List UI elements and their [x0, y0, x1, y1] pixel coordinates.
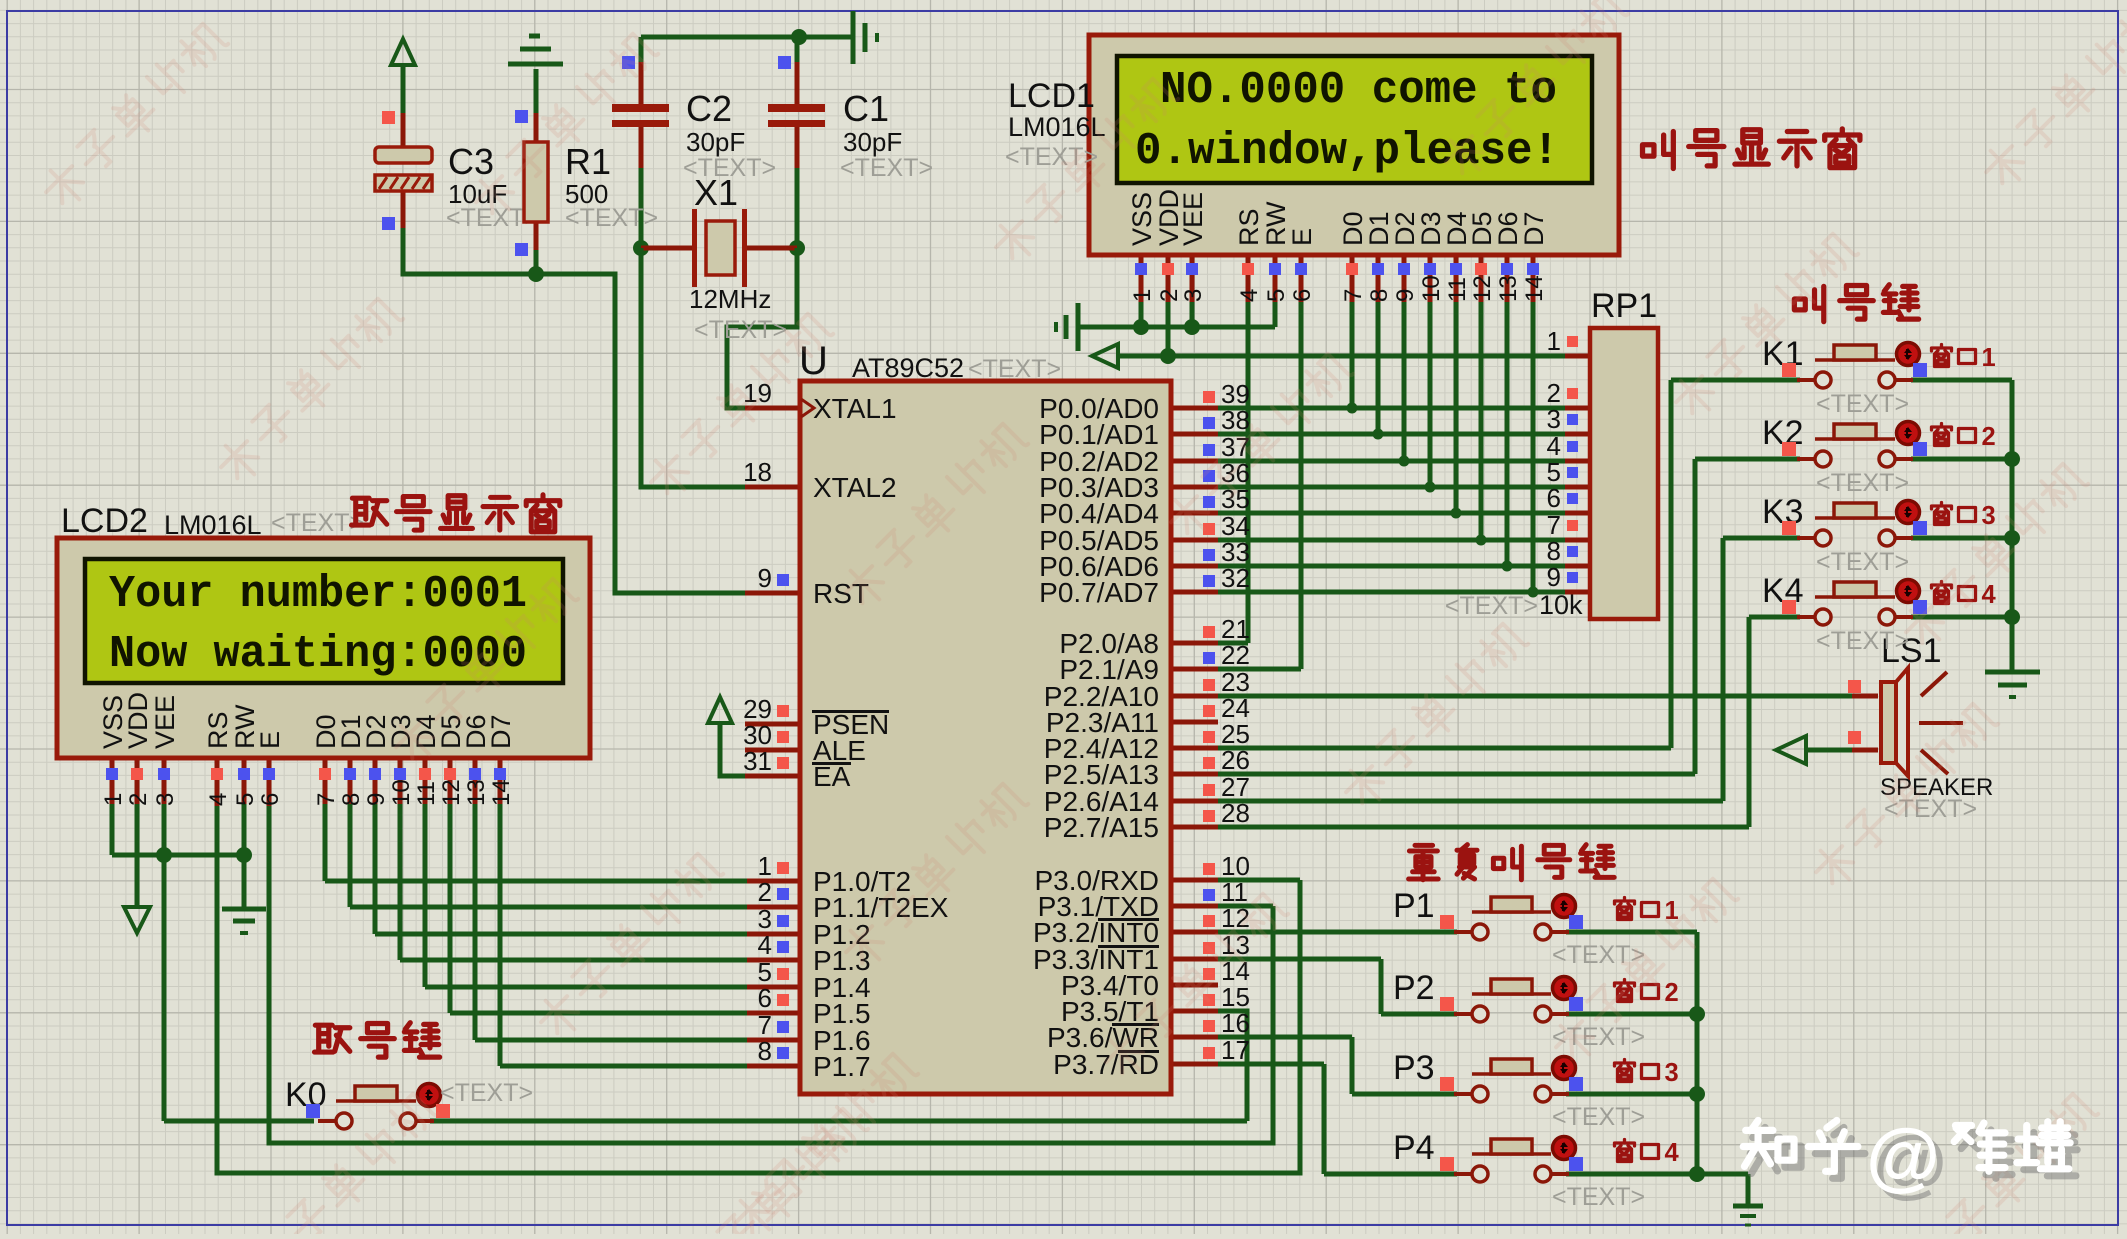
- svg-text:NO.0000 come to: NO.0000 come to: [1160, 65, 1557, 116]
- marker square C1: [778, 56, 791, 69]
- svg-text:17: 17: [1221, 1035, 1250, 1065]
- marker square K4 blue: [1913, 600, 1927, 614]
- wire K4 net P2.7: [1218, 825, 1749, 830]
- svg-text:RS: RS: [1234, 208, 1264, 246]
- wire speaker net P2.2: [1218, 694, 1854, 699]
- junction LCD1 VEE: [1184, 319, 1200, 335]
- push button P1: [1454, 895, 1576, 941]
- svg-text:14: 14: [1521, 275, 1548, 302]
- marker square P3 blue: [1569, 1077, 1583, 1091]
- marker square P3: [1440, 1077, 1454, 1091]
- svg-text:4: 4: [758, 930, 772, 960]
- junction X1 left node: [633, 240, 649, 256]
- push button P2: [1454, 977, 1576, 1023]
- wire K buttons right rail to ground: [2010, 380, 2015, 672]
- svg-text:3: 3: [1547, 404, 1561, 434]
- marker square P4 blue: [1569, 1157, 1583, 1171]
- svg-text:VSS: VSS: [1127, 192, 1157, 246]
- svg-text:7: 7: [1340, 289, 1367, 302]
- svg-text:E: E: [255, 731, 285, 749]
- LCD2 pin names: [98, 692, 516, 749]
- svg-text:X1: X1: [694, 172, 738, 213]
- push button K1: [1797, 343, 1920, 389]
- svg-text:10: 10: [388, 779, 415, 806]
- svg-text:D7: D7: [1519, 211, 1549, 246]
- marker square R1 bottom: [515, 243, 528, 256]
- watermark 知乎 @难堪: [1750, 1121, 2077, 1206]
- power +5V arrow (top left): [391, 39, 415, 65]
- junction K2 rail: [2004, 451, 2020, 467]
- svg-text:12: 12: [438, 779, 465, 806]
- junction C1 top: [791, 29, 807, 45]
- svg-text:VEE: VEE: [1178, 192, 1208, 246]
- marker square K3 blue: [1913, 521, 1927, 535]
- svg-text:8: 8: [758, 1036, 772, 1066]
- svg-text:4: 4: [205, 793, 232, 806]
- LCD2 pin numbers and markers: [100, 768, 515, 806]
- svg-text:XTAL2: XTAL2: [813, 472, 897, 503]
- pin stubs LCD2 1-14: [110, 758, 115, 806]
- svg-text:3: 3: [152, 793, 179, 806]
- pin stub PSEN: [745, 722, 800, 727]
- junction LCD2 RW: [236, 847, 252, 863]
- svg-text:<TEXT>: <TEXT>: [840, 154, 933, 182]
- wire C2 bottom to X1 left and XTAL2: [639, 126, 644, 170]
- svg-text:P2: P2: [1393, 969, 1435, 1007]
- svg-text:2: 2: [125, 793, 152, 806]
- microcontroller U AT89C52: [800, 381, 1171, 1094]
- svg-text:<TEXT>: <TEXT>: [1816, 627, 1909, 655]
- svg-text:<TEXT>: <TEXT>: [1445, 592, 1538, 620]
- junction K4 rail: [2004, 609, 2020, 625]
- svg-text:14: 14: [488, 779, 515, 806]
- svg-text:1: 1: [1547, 326, 1561, 356]
- window label 窗口1 P: [1615, 898, 1659, 920]
- ground symbol right of speaker: [1985, 670, 2040, 675]
- svg-text:XTAL1: XTAL1: [813, 393, 897, 424]
- marker square K2 blue: [1913, 442, 1927, 456]
- wire LCD2 RS to P3.0 RXD: [1218, 878, 1300, 883]
- resistor pack RP1 (10k): [1590, 328, 1658, 619]
- marker square LS1 bottom: [1848, 731, 1861, 744]
- junction P2 rail: [1689, 1006, 1705, 1022]
- window label 窗口2: [1932, 424, 1976, 446]
- svg-text:R1: R1: [565, 141, 611, 182]
- svg-text:LCD1: LCD1: [1008, 77, 1095, 115]
- capacitor C2 (30pF): [612, 104, 669, 112]
- wire P buttons right rail: [1695, 932, 1700, 1174]
- svg-text:0.window,please!: 0.window,please!: [1135, 126, 1559, 177]
- svg-text:<TEXT>: <TEXT>: [1884, 795, 1977, 823]
- svg-text:D7: D7: [486, 714, 516, 749]
- window label 窗口1: [1932, 345, 1976, 367]
- wire R1 bottom to node: [534, 222, 539, 252]
- svg-text:9: 9: [1392, 289, 1419, 302]
- svg-text:28: 28: [1221, 798, 1250, 828]
- U right pin numbers and markers: [1203, 379, 1250, 1065]
- svg-text:13: 13: [463, 779, 490, 806]
- resistor R1 (500): [524, 142, 548, 222]
- marker square P1 blue: [1569, 915, 1583, 929]
- wire LCD1 RS to P2.0: [1246, 302, 1251, 643]
- LCD display LCD2 LM016L: [57, 538, 590, 758]
- LCD display LCD1 LM016L: [1089, 35, 1619, 255]
- wire P1 button net P3.2 INT0: [1218, 930, 1457, 935]
- U right pin names: [1033, 393, 1159, 1080]
- wire VCC arrow to C3 top: [401, 65, 406, 115]
- crystal X1 (12MHz): [692, 209, 747, 287]
- svg-text:35: 35: [1221, 484, 1250, 514]
- svg-text:P3: P3: [1393, 1049, 1435, 1087]
- clock input mark XTAL1: [801, 399, 814, 417]
- junction node RST-R1: [528, 266, 544, 282]
- svg-text:VEE: VEE: [150, 695, 180, 749]
- junction K3 rail: [2004, 530, 2020, 546]
- svg-text:6: 6: [1547, 483, 1561, 513]
- pin stubs LCD1 1-14: [1139, 255, 1144, 304]
- svg-text:C3: C3: [448, 141, 494, 182]
- window label 窗口2 P: [1615, 980, 1659, 1002]
- svg-text:32: 32: [1221, 563, 1250, 593]
- header 叫号显示窗 (call display): [1643, 129, 1860, 169]
- svg-text:12: 12: [1469, 275, 1496, 302]
- svg-text:RS: RS: [203, 711, 233, 749]
- wire LCD1 E to P2.1: [1299, 302, 1304, 669]
- window label 窗口4: [1932, 582, 1976, 604]
- wire LCD2 E to P3.1 TXD: [1218, 904, 1273, 909]
- wire X1 left pin: [641, 246, 692, 251]
- svg-text:5: 5: [1263, 289, 1290, 302]
- marker square P1: [1440, 915, 1454, 929]
- svg-text:8: 8: [1366, 289, 1393, 302]
- svg-text:10k: 10k: [1539, 590, 1583, 620]
- capacitor C3 (10uF electrolytic): [375, 147, 432, 191]
- svg-text:1: 1: [100, 793, 127, 806]
- wire LCD2 data staircase to P1.0-P1.7: [323, 804, 328, 881]
- svg-text:9: 9: [758, 563, 772, 593]
- wire ground branch to K0: [162, 855, 167, 1121]
- junction LCD1 VSS: [1133, 319, 1149, 335]
- header 取号键 (take ticket key): [315, 1023, 440, 1057]
- wire XTAL1 net: [727, 248, 797, 408]
- svg-text:<TEXT>: <TEXT>: [1816, 469, 1909, 497]
- marker square P4: [1440, 1157, 1454, 1171]
- pin stub RP1 pin1: [1565, 354, 1590, 359]
- svg-text:13: 13: [1495, 275, 1522, 302]
- svg-text:38: 38: [1221, 405, 1250, 435]
- speaker LS1: [1881, 668, 1963, 776]
- push button K3: [1797, 501, 1920, 547]
- marker square K0 red: [436, 1104, 450, 1118]
- marker square C2: [622, 56, 635, 69]
- svg-text:30pF: 30pF: [686, 127, 745, 157]
- marker square K4: [1782, 600, 1796, 614]
- marker square P2: [1440, 997, 1454, 1011]
- svg-text:1: 1: [1129, 289, 1156, 302]
- svg-text:11: 11: [413, 781, 440, 806]
- svg-text:P0.7/AD7: P0.7/AD7: [1039, 577, 1159, 608]
- LCD1 pin numbers and markers: [1129, 263, 1548, 302]
- svg-text:@: @: [1866, 1114, 1940, 1199]
- U left pin names: [812, 393, 949, 1082]
- marker square K3: [1782, 521, 1796, 535]
- svg-text:K0: K0: [285, 1076, 327, 1114]
- svg-text:<TEXT>: <TEXT>: [1816, 548, 1909, 576]
- svg-text:31: 31: [743, 746, 772, 776]
- wire K0 to P3.5 T1: [430, 1119, 1247, 1124]
- svg-text:7: 7: [313, 793, 340, 806]
- svg-text:<TEXT>: <TEXT>: [440, 1079, 533, 1107]
- marker square K2: [1782, 442, 1796, 456]
- push button P3: [1454, 1057, 1576, 1103]
- svg-text:11: 11: [1444, 277, 1471, 302]
- wire P2 button net P3.3 INT1: [1218, 957, 1381, 962]
- ground symbol below LCD2: [222, 907, 266, 912]
- svg-text:Your number:0001: Your number:0001: [109, 569, 527, 620]
- wire P3 button net P3.6 WR: [1218, 1035, 1352, 1040]
- svg-text:E: E: [1287, 228, 1317, 246]
- wire P0 data bus rows to RP1: [1218, 406, 1565, 411]
- wire P4 button net P3.7 RD: [1218, 1062, 1324, 1067]
- svg-text:8: 8: [338, 793, 365, 806]
- header 取号显示窗 (ticket display): [352, 495, 560, 532]
- svg-text:3: 3: [1180, 289, 1207, 302]
- svg-text:<TEXT>: <TEXT>: [1552, 1103, 1645, 1131]
- marker square K0 blue: [306, 1104, 320, 1118]
- svg-text:5: 5: [232, 793, 259, 806]
- push button P4: [1454, 1137, 1576, 1183]
- marker square LS1 top: [1848, 680, 1861, 693]
- svg-text:VDD: VDD: [123, 692, 153, 749]
- svg-text:2: 2: [758, 877, 772, 907]
- svg-text:P1: P1: [1393, 887, 1435, 925]
- ground symbol top right: [851, 11, 856, 64]
- wire LCD2 ground net: [110, 804, 115, 855]
- svg-text:Now waiting:0000: Now waiting:0000: [109, 629, 527, 680]
- svg-text:9: 9: [1547, 562, 1561, 592]
- svg-text:18: 18: [743, 457, 772, 487]
- svg-text:P1.7: P1.7: [813, 1051, 871, 1082]
- wire K3 net P2.6: [1218, 799, 1723, 804]
- svg-text:<TEXT>: <TEXT>: [1552, 1183, 1645, 1211]
- svg-text:1: 1: [1982, 344, 1996, 372]
- push button K4: [1797, 580, 1920, 626]
- RP1 pin numbers and markers: [1547, 326, 1578, 592]
- marker square K1: [1782, 363, 1796, 377]
- window label 窗口4 P: [1615, 1140, 1659, 1162]
- power +5V arrow at EA: [708, 697, 732, 723]
- svg-text:P4: P4: [1393, 1129, 1435, 1167]
- push button K0: [318, 1084, 441, 1130]
- svg-text:6: 6: [257, 793, 284, 806]
- marker square C3 bottom: [382, 217, 395, 230]
- ground symbol above R1: [508, 62, 563, 67]
- svg-text:EA: EA: [813, 761, 851, 792]
- svg-text:3: 3: [1982, 502, 1996, 530]
- wire P rail to ground: [1697, 1172, 1748, 1177]
- svg-text:P2.7/A15: P2.7/A15: [1044, 812, 1159, 843]
- svg-text:<TEXT>: <TEXT>: [694, 316, 787, 344]
- power arrow (down) LCD2 supply: [124, 907, 150, 933]
- LCD1 pin names: [1127, 189, 1549, 246]
- svg-text:LM016L: LM016L: [1008, 112, 1106, 142]
- svg-text:C2: C2: [686, 88, 732, 129]
- svg-text:4: 4: [1236, 289, 1263, 302]
- wire C3 bottom to RST node: [401, 191, 406, 228]
- svg-text:2: 2: [1982, 423, 1996, 451]
- junction X1 right node: [789, 240, 805, 256]
- power arrow at speaker bottom pin: [1776, 736, 1806, 764]
- svg-text:2: 2: [1156, 289, 1183, 302]
- push button K2: [1797, 422, 1920, 468]
- svg-text:<TEXT>: <TEXT>: [1816, 390, 1909, 418]
- marker square K1 blue: [1913, 363, 1927, 377]
- svg-text:26: 26: [1221, 745, 1250, 775]
- ground symbol below P buttons: [1733, 1204, 1763, 1209]
- watermark pattern overlay: [38, 19, 232, 213]
- svg-text:30pF: 30pF: [843, 127, 902, 157]
- wire RST net to U RST pin: [536, 274, 747, 593]
- svg-text:RP1: RP1: [1591, 287, 1657, 325]
- junction P3 rail: [1689, 1086, 1705, 1102]
- svg-text:12MHz: 12MHz: [689, 284, 771, 314]
- pin stub ALE: [745, 748, 800, 753]
- wire LCD2 VDD to power arrow: [135, 804, 140, 908]
- svg-text:C1: C1: [843, 88, 889, 129]
- svg-text:AT89C52: AT89C52: [852, 353, 964, 383]
- junction LCD1 VDD: [1160, 348, 1176, 364]
- wire LCD1 ground net (VSS VEE RW): [1139, 302, 1144, 327]
- svg-text:<TEXT>: <TEXT>: [565, 204, 658, 232]
- wire C1 bottom to X1 right and XTAL1: [795, 126, 800, 170]
- marker square R1 top: [515, 110, 528, 123]
- svg-text:4: 4: [1982, 581, 1997, 609]
- svg-text:3: 3: [1665, 1059, 1679, 1087]
- header 重复叫号键 (repeat call keys): [1409, 845, 1615, 880]
- U left pin numbers and markers: [743, 378, 789, 1066]
- header 叫号键 (call keys): [1794, 285, 1918, 322]
- svg-text:16: 16: [1221, 1008, 1250, 1038]
- svg-text:10: 10: [1418, 275, 1445, 302]
- svg-text:9: 9: [363, 793, 390, 806]
- svg-text:LCD2: LCD2: [61, 502, 148, 540]
- window label 窗口3 P: [1615, 1060, 1659, 1082]
- wire X1 right pin: [746, 246, 797, 251]
- svg-text:<TEXT>: <TEXT>: [968, 355, 1061, 383]
- wire K2 net P2.5: [1218, 772, 1695, 777]
- capacitor C1 (30pF): [768, 104, 825, 112]
- marker square C3 top: [382, 111, 395, 124]
- wire C2 top: [639, 37, 644, 64]
- svg-text:6: 6: [758, 983, 772, 1013]
- junction LCD2 VEE: [156, 847, 172, 863]
- junction P4 rail: [1689, 1166, 1705, 1182]
- wire C1 top: [795, 37, 800, 64]
- wire LCD1 VDD net to RP1 pin1: [1166, 302, 1171, 356]
- power +5V arrow (LCD1 supply): [1092, 344, 1118, 368]
- wire R1 top to ground: [534, 69, 539, 115]
- pin stubs U left P1.0-P1.7: [745, 879, 800, 884]
- pin stubs U right side: [1171, 406, 1218, 411]
- marker square P2 blue: [1569, 997, 1583, 1011]
- ground symbol left of LCD1: [1076, 303, 1081, 351]
- svg-text:22: 22: [1221, 640, 1250, 670]
- wire crystal ground rail (top): [641, 35, 853, 40]
- window label 窗口3: [1932, 503, 1976, 525]
- svg-text:2: 2: [1665, 979, 1679, 1007]
- wire K1 net P2.4: [1218, 746, 1671, 751]
- svg-text:6: 6: [1289, 289, 1316, 302]
- svg-text:4: 4: [1665, 1139, 1680, 1167]
- wire XTAL2 net: [641, 248, 747, 487]
- svg-text:LM016L: LM016L: [164, 510, 262, 540]
